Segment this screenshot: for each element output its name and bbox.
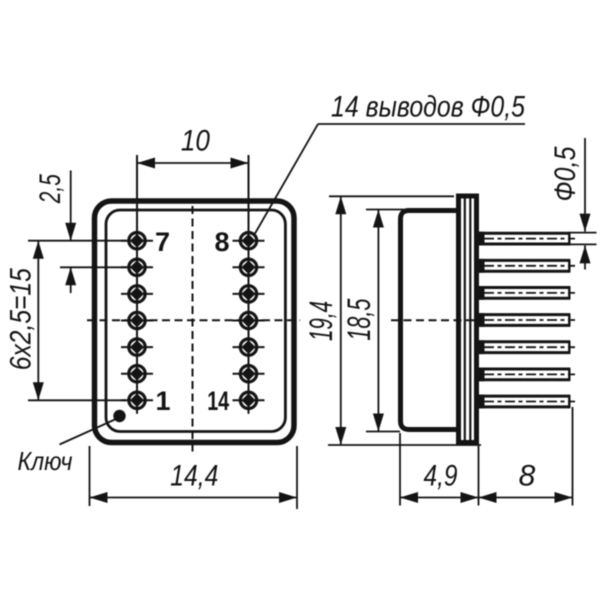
pin 14 hole	[233, 387, 265, 414]
pin lead 7 (side view)	[479, 395, 576, 409]
dimension 10	[137, 162, 249, 164]
pin lead 6 (side view)	[479, 368, 576, 382]
svg-text:Ключ: Ключ	[18, 446, 73, 476]
side view flange plate	[459, 196, 477, 443]
side view centerline	[391, 319, 480, 321]
leader 14 vyvodov	[255, 124, 525, 234]
pins left column (pins 7..1)	[121, 155, 153, 414]
flange inner thin lines	[464, 199, 466, 441]
pin 2 hole	[121, 360, 153, 387]
svg-text:Ф0,5: Ф0,5	[549, 146, 582, 201]
horizontal centerline (dashed)	[87, 319, 300, 321]
pin 8 hole	[233, 227, 265, 254]
dimension 2,5	[70, 171, 72, 294]
extension line row1	[28, 240, 126, 242]
dimension 6x2,5=15	[37, 241, 39, 401]
extension line row7	[28, 399, 126, 401]
svg-text:8: 8	[519, 460, 536, 493]
key dot	[113, 410, 125, 422]
pin lead 2 (side view)	[479, 259, 576, 273]
svg-text:2,5: 2,5	[34, 174, 67, 204]
pin 9 hole	[233, 254, 265, 281]
pin column axis line (right column)	[248, 155, 250, 413]
pin 3 hole	[121, 334, 153, 361]
svg-text:8: 8	[214, 227, 229, 257]
dimension 14,4	[90, 446, 298, 509]
extension line row2	[60, 266, 126, 268]
package body outer outline (top view)	[95, 201, 295, 443]
pin column axis line (left column)	[136, 155, 138, 413]
dimension 4,9	[400, 433, 479, 506]
pin 7 hole	[121, 227, 153, 254]
svg-text:14: 14	[207, 386, 229, 416]
dimension F0,5	[569, 138, 597, 270]
pin 4 hole	[121, 307, 153, 334]
svg-text:4,9: 4,9	[424, 460, 458, 493]
key leader line	[60, 419, 117, 445]
pin lead 3 (side view)	[479, 286, 576, 300]
dimension 19,4	[328, 196, 481, 445]
pin 10 hole	[233, 280, 265, 307]
pin 5 hole	[121, 280, 153, 307]
pin lead 1 (side view)	[479, 232, 576, 246]
side view body (cup)	[401, 211, 459, 430]
svg-text:6х2,5=15: 6х2,5=15	[5, 268, 38, 370]
pin 13 hole	[233, 360, 265, 387]
pins right column (pins 8..14)	[233, 155, 265, 414]
svg-text:19,4: 19,4	[303, 301, 339, 341]
pin 1 hole	[121, 387, 153, 414]
svg-text:14,4: 14,4	[170, 460, 218, 493]
pin 12 hole	[233, 334, 265, 361]
svg-text:7: 7	[155, 227, 170, 257]
svg-text:14 выводов Ф0,5: 14 выводов Ф0,5	[331, 91, 525, 124]
svg-text:10: 10	[181, 125, 210, 158]
pin lead 5 (side view)	[479, 340, 576, 354]
dimension 18,5	[366, 210, 404, 432]
pin lead 4 (side view)	[479, 313, 576, 327]
vertical centerline (dashed)	[192, 206, 194, 456]
side view pins	[479, 232, 576, 409]
svg-text:18,5: 18,5	[341, 298, 377, 340]
dimension 8	[479, 407, 573, 506]
package lid inner line	[106, 210, 285, 432]
pin 6 hole	[121, 254, 153, 281]
pin 11 hole	[233, 307, 265, 334]
svg-text:1: 1	[155, 386, 170, 416]
